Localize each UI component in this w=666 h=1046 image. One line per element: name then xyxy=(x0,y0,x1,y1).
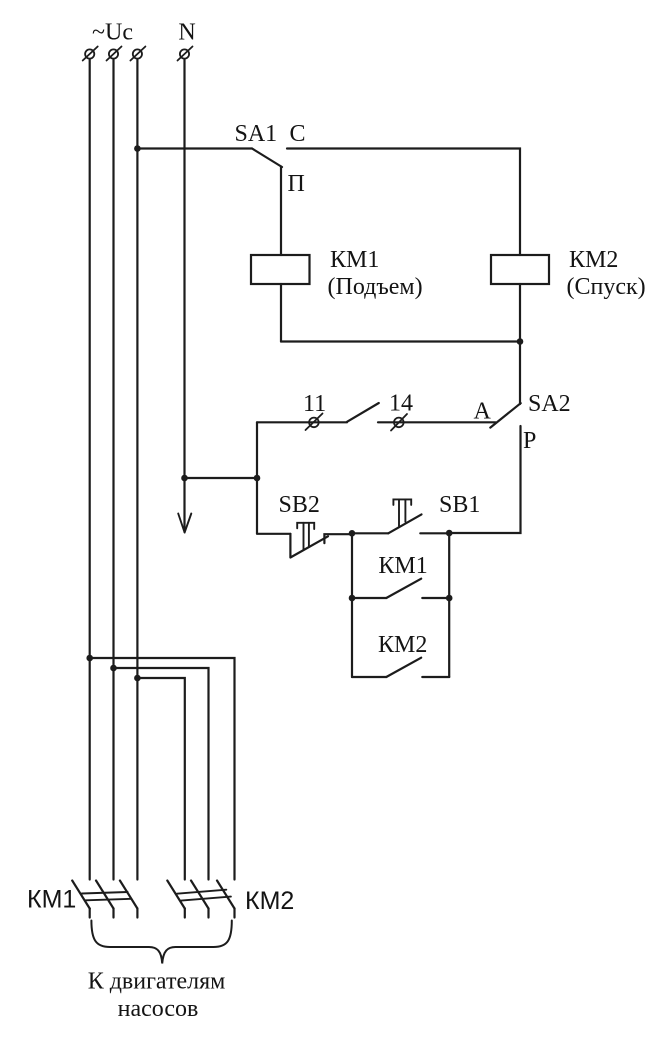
svg-text:A: A xyxy=(474,399,492,425)
svg-text:насосов: насосов xyxy=(118,996,199,1022)
svg-text:КМ1: КМ1 xyxy=(330,247,379,273)
svg-text:SB1: SB1 xyxy=(439,492,480,518)
switch SA1 blade xyxy=(252,149,282,168)
svg-text:(Подъем): (Подъем) xyxy=(328,274,423,300)
svg-text:C: C xyxy=(290,121,306,147)
svg-text:SA1: SA1 xyxy=(235,121,278,147)
wire L2 branch to KM2 bank xyxy=(114,668,209,880)
contact KM1 auxiliary (NO) xyxy=(352,579,449,598)
svg-text:N: N xyxy=(178,20,195,46)
node junction L1 branch xyxy=(86,655,93,662)
wire SA1 C contact to KM2 branch xyxy=(287,149,520,256)
wire SA2 common xyxy=(519,342,521,405)
svg-text:(Спуск): (Спуск) xyxy=(567,274,646,300)
wire N to left rail xyxy=(185,477,258,479)
terminal X3 (phase L3) circle with slash xyxy=(130,47,145,61)
node junction bus / SA2 xyxy=(517,338,524,345)
node junction aux left xyxy=(349,595,356,602)
coil KM2 xyxy=(491,255,549,284)
pushbutton SB2 (NC) xyxy=(257,523,352,558)
svg-text:КМ1: КМ1 xyxy=(378,553,427,579)
node junction SB1 right xyxy=(446,530,453,537)
svg-text:КМ1: КМ1 xyxy=(27,886,76,914)
wire SA1 common xyxy=(137,147,252,149)
wire neutral N vertical xyxy=(183,60,185,532)
terminal X1 (phase L1) circle with slash xyxy=(83,47,98,61)
contactor KM2 main contacts (3-pole) xyxy=(167,881,234,918)
svg-text:КМ2: КМ2 xyxy=(569,247,618,273)
terminal 11 circle with slash xyxy=(306,414,323,431)
contactor KM1 main contacts (3-pole) xyxy=(72,881,137,918)
wire contact 11 segment xyxy=(257,421,347,423)
svg-text:~Uc: ~Uc xyxy=(92,20,133,46)
wire aux branch right vertical xyxy=(448,533,450,677)
node junction aux right xyxy=(446,595,453,602)
wire left control rail xyxy=(256,422,258,533)
svg-text:11: 11 xyxy=(303,391,326,417)
wire phase L3 vertical xyxy=(136,60,138,880)
contact blade level sensor 11-14 xyxy=(347,403,379,422)
svg-text:КМ2: КМ2 xyxy=(245,887,294,915)
node junction SA1 feed on L3 xyxy=(134,145,141,152)
svg-text:SB2: SB2 xyxy=(279,492,320,518)
node junction SB2/SB1 xyxy=(349,530,356,537)
switch SA2 blade xyxy=(490,403,520,427)
wire L3 branch to KM2 bank xyxy=(137,678,184,880)
terminal 14 circle with slash xyxy=(391,414,407,431)
wire aux branch left vertical xyxy=(351,533,353,677)
wire SA2 P contact down xyxy=(449,426,520,533)
coil KM1 xyxy=(251,255,310,284)
wire KM2 coil bottom xyxy=(519,284,521,342)
wire SA1 П contact down to KM1 coil xyxy=(280,167,282,256)
node junction L3 branch xyxy=(134,675,141,682)
wire phase L2 vertical xyxy=(112,60,114,880)
terminal X2 (phase L2) circle with slash xyxy=(107,47,122,61)
svg-text:14: 14 xyxy=(389,391,413,417)
node junction on N line xyxy=(181,475,188,482)
wire coil return bus xyxy=(281,340,520,342)
wire L1 branch to KM2 bank xyxy=(90,658,235,880)
arrow continuation of N xyxy=(178,514,191,533)
wire KM1 coil bottom xyxy=(280,284,282,342)
node junction on left rail xyxy=(254,475,261,482)
svg-text:КМ2: КМ2 xyxy=(378,632,427,658)
svg-text:SA2: SA2 xyxy=(528,391,571,417)
terminal X4 (neutral N) circle with slash xyxy=(178,47,193,61)
node junction L2 branch xyxy=(110,665,117,672)
svg-text:P: P xyxy=(523,428,536,454)
pushbutton SB1 (NO) xyxy=(352,499,449,533)
wire phase L1 vertical xyxy=(89,60,91,880)
svg-text:П: П xyxy=(288,171,305,197)
brace to pump motors xyxy=(91,921,231,964)
svg-text:К двигателям: К двигателям xyxy=(88,969,226,995)
wire contact 14 segment xyxy=(378,421,496,423)
contact KM2 auxiliary (NO) xyxy=(352,658,449,677)
